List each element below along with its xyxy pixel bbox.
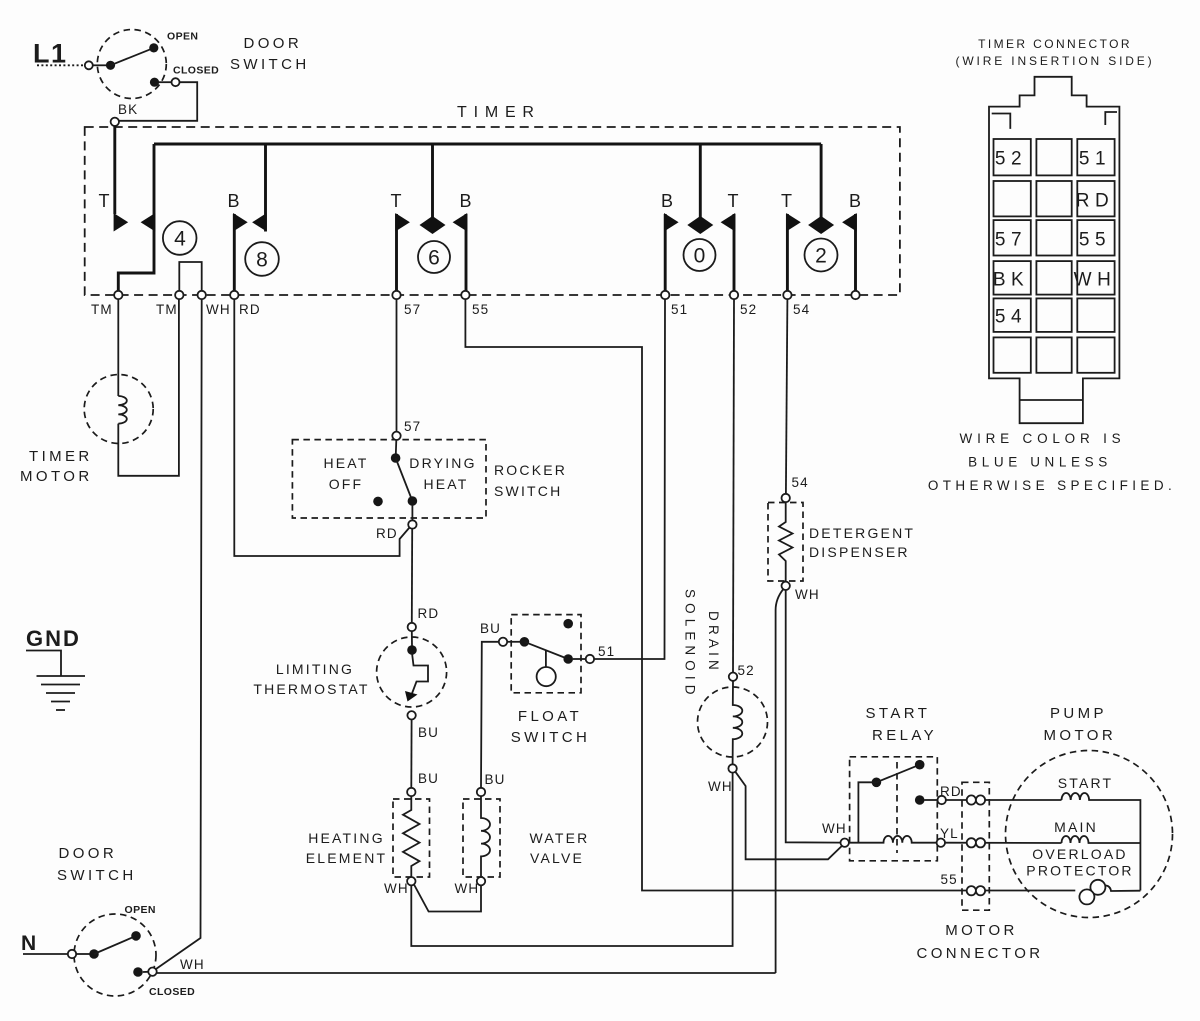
wire 54 from timer to detergent dispenser bbox=[786, 299, 809, 494]
svg-text:PROTECTOR: PROTECTOR bbox=[1026, 863, 1133, 879]
label DRYING HEAT bbox=[409, 455, 476, 492]
label WATER VALVE bbox=[530, 830, 590, 866]
svg-text:WH: WH bbox=[455, 881, 480, 896]
svg-text:WH: WH bbox=[206, 302, 231, 317]
svg-text:MOTOR: MOTOR bbox=[20, 468, 93, 485]
note WIRE COLOR IS BLUE UNLESS OTHERWISE SPECIFIED bbox=[928, 431, 1176, 493]
label BK bbox=[118, 102, 138, 117]
label DOOR SWITCH (top) bbox=[230, 35, 310, 73]
label LIMITING THERMOSTAT bbox=[253, 661, 369, 697]
svg-text:4: 4 bbox=[174, 228, 186, 251]
wire 52 from timer to drain solenoid bbox=[733, 299, 755, 678]
label YL at start relay bbox=[940, 826, 959, 841]
svg-text:HEAT: HEAT bbox=[423, 476, 468, 492]
label RD at rocker output bbox=[376, 526, 398, 541]
label WH at bottom door switch bbox=[180, 957, 205, 972]
connector pin label RD bbox=[1076, 191, 1114, 212]
svg-text:BK: BK bbox=[993, 270, 1029, 291]
wire 55 from timer to motor connector bbox=[465, 299, 1075, 890]
svg-text:6: 6 bbox=[428, 247, 440, 270]
svg-text:CLOSED: CLOSED bbox=[173, 65, 219, 77]
svg-text:52: 52 bbox=[995, 149, 1027, 170]
connector pin label BK bbox=[993, 270, 1029, 291]
svg-text:WH: WH bbox=[1074, 270, 1117, 291]
label WH at drain solenoid bbox=[708, 779, 733, 794]
jumper TM-WH inside timer bbox=[179, 262, 201, 292]
label FLOAT SWITCH bbox=[511, 708, 591, 746]
svg-text:MAIN: MAIN bbox=[1054, 819, 1098, 835]
drain solenoid L3 bbox=[698, 673, 768, 773]
svg-text:TM: TM bbox=[156, 302, 178, 317]
label WH at detergent dispenser bbox=[795, 587, 820, 602]
svg-text:BU: BU bbox=[418, 725, 439, 740]
label CLOSED (top door switch) bbox=[173, 65, 219, 77]
svg-text:ROCKER: ROCKER bbox=[494, 462, 567, 478]
timer cam switch 0 : T line (52) bbox=[721, 213, 736, 292]
svg-text:B: B bbox=[228, 191, 240, 211]
label T (cam 4) bbox=[99, 191, 110, 211]
limiting thermostat TH1 bbox=[377, 623, 447, 720]
timer terminal 52 bbox=[730, 291, 757, 317]
svg-text:WIRE COLOR IS: WIRE COLOR IS bbox=[960, 431, 1126, 446]
svg-text:57: 57 bbox=[995, 230, 1027, 251]
cam number 0 bbox=[684, 239, 716, 271]
connector pin label 54 bbox=[995, 307, 1027, 328]
svg-text:RD: RD bbox=[940, 784, 962, 799]
wire 57 from timer to rocker switch bbox=[397, 299, 422, 434]
wire L1 lead bbox=[37, 64, 85, 66]
svg-text:L1: L1 bbox=[33, 39, 68, 69]
timer terminal 54 bbox=[783, 291, 810, 317]
wire TM1 to timer motor bbox=[117, 299, 119, 396]
label MAIN (pump winding) bbox=[1054, 819, 1098, 835]
label START RELAY bbox=[866, 705, 938, 744]
label OPEN (top door switch) bbox=[167, 31, 198, 43]
svg-text:57: 57 bbox=[404, 302, 421, 317]
svg-text:T: T bbox=[99, 191, 110, 211]
label OVERLOAD PROTECTOR bbox=[1026, 846, 1133, 879]
svg-text:54: 54 bbox=[793, 302, 810, 317]
label B (cam 8) bbox=[228, 191, 240, 211]
timer cam switch 2 : B line bbox=[842, 213, 857, 292]
timer cam switch 4 : moving line from bus to TM bbox=[118, 144, 155, 292]
label WH at heating element bbox=[384, 881, 409, 896]
svg-text:57: 57 bbox=[404, 419, 421, 434]
svg-text:OVERLOAD: OVERLOAD bbox=[1032, 846, 1127, 862]
label B (cam 2) bbox=[849, 191, 861, 211]
svg-text:DRYING: DRYING bbox=[409, 455, 476, 471]
svg-text:BLUE UNLESS: BLUE UNLESS bbox=[968, 455, 1112, 470]
svg-text:VALVE: VALVE bbox=[530, 850, 584, 866]
svg-text:LIMITING: LIMITING bbox=[276, 661, 354, 677]
svg-text:8: 8 bbox=[256, 249, 268, 272]
svg-text:SWITCH: SWITCH bbox=[511, 729, 591, 746]
label MOTOR CONNECTOR bbox=[917, 922, 1044, 962]
label TIMER MOTOR bbox=[20, 448, 93, 485]
wire RD relay to pump motor bbox=[946, 799, 1062, 801]
timer terminal 55 bbox=[461, 291, 489, 317]
svg-text:HEAT: HEAT bbox=[323, 455, 368, 471]
svg-text:T: T bbox=[391, 191, 402, 211]
svg-text:RD: RD bbox=[418, 606, 440, 621]
timer terminal 51 bbox=[661, 291, 688, 317]
svg-text:TM: TM bbox=[91, 302, 113, 317]
svg-text:FLOAT: FLOAT bbox=[518, 708, 582, 725]
svg-text:55: 55 bbox=[472, 302, 489, 317]
timer cam switch 2 : common from bus with diamond bbox=[808, 144, 834, 234]
wire rocker to limiting thermostat bbox=[412, 529, 439, 623]
wire YL relay to pump motor bbox=[945, 842, 1062, 844]
svg-text:SOLENOID: SOLENOID bbox=[683, 589, 698, 700]
label L1 bbox=[33, 39, 68, 69]
svg-text:PUMP: PUMP bbox=[1050, 705, 1107, 722]
svg-text:OTHERWISE SPECIFIED.: OTHERWISE SPECIFIED. bbox=[928, 478, 1176, 493]
svg-text:51: 51 bbox=[1079, 149, 1111, 170]
wire WH from timer down to door switch bbox=[156, 299, 202, 969]
svg-text:52: 52 bbox=[738, 663, 755, 678]
timer cam switch 2 : T line (54) bbox=[786, 213, 801, 292]
timer box (dashed) bbox=[85, 127, 900, 295]
timer cam switch 6 : common from bus with diamond bbox=[420, 144, 446, 234]
label PUMP MOTOR bbox=[1044, 705, 1117, 744]
label 51 at float switch bbox=[598, 644, 615, 659]
svg-text:HEATING: HEATING bbox=[308, 830, 385, 846]
svg-text:BU: BU bbox=[418, 771, 439, 786]
wire float switch BU to water valve bbox=[480, 621, 505, 788]
label ROCKER SWITCH bbox=[494, 462, 567, 499]
label CLOSED (bottom door switch) bbox=[149, 986, 195, 998]
water valve L2 bbox=[463, 788, 500, 886]
connector pin label WH bbox=[1074, 270, 1117, 291]
wire detergent WH to neutral bus bbox=[776, 589, 784, 973]
timer motor M1 bbox=[84, 375, 153, 444]
svg-text:MOTOR: MOTOR bbox=[945, 922, 1018, 939]
label HEATING ELEMENT bbox=[306, 830, 388, 866]
label DETERGENT DISPENSER bbox=[809, 525, 915, 560]
wire door switch to BK terminal bbox=[119, 82, 197, 121]
svg-text:SWITCH: SWITCH bbox=[230, 56, 310, 73]
label 55 at motor connector bbox=[941, 872, 958, 887]
label WH at start relay bbox=[822, 821, 847, 836]
svg-text:RELAY: RELAY bbox=[872, 727, 937, 744]
svg-text:54: 54 bbox=[995, 307, 1027, 328]
neutral wire N across bottom bbox=[157, 972, 776, 974]
svg-text:WH: WH bbox=[180, 957, 205, 972]
wire heating element WH to drain solenoid WH bbox=[411, 773, 732, 946]
svg-text:BK: BK bbox=[118, 102, 138, 117]
svg-text:DOOR: DOOR bbox=[59, 845, 118, 862]
timer terminal 57 bbox=[392, 291, 421, 317]
timer terminal RD bbox=[230, 291, 261, 317]
svg-text:51: 51 bbox=[598, 644, 615, 659]
timer cam switch 0 : B line (51) bbox=[664, 213, 679, 292]
connector pin label 52 bbox=[995, 149, 1027, 170]
svg-text:CLOSED: CLOSED bbox=[149, 986, 195, 998]
cam number 2 bbox=[805, 239, 838, 272]
wire RD from timer to rocker switch bbox=[234, 299, 409, 556]
ground symbol GND bbox=[26, 626, 85, 710]
wire N lead bbox=[23, 953, 68, 955]
connector pin label 55 bbox=[1079, 230, 1111, 251]
label TIMER bbox=[457, 104, 541, 121]
svg-text:DRAIN: DRAIN bbox=[706, 611, 721, 674]
label HEAT OFF bbox=[323, 455, 368, 492]
svg-text:0: 0 bbox=[694, 245, 706, 268]
svg-text:B: B bbox=[849, 191, 861, 211]
svg-text:N: N bbox=[21, 932, 36, 955]
cam number 6 bbox=[418, 241, 450, 273]
timer terminal TM (2) bbox=[156, 291, 184, 317]
label B (cam 6) bbox=[460, 191, 472, 211]
svg-text:YL: YL bbox=[940, 826, 959, 841]
motor connector bbox=[962, 782, 989, 910]
cam number 8 bbox=[245, 242, 279, 276]
wire drain solenoid WH to start relay WH bbox=[735, 772, 841, 860]
label DOOR SWITCH (bottom) bbox=[57, 845, 137, 884]
timer bus wire bbox=[154, 143, 821, 146]
svg-text:55: 55 bbox=[941, 872, 958, 887]
timer connector (top right) bbox=[989, 77, 1119, 423]
svg-text:START: START bbox=[1058, 775, 1114, 791]
svg-text:52: 52 bbox=[740, 302, 757, 317]
float switch S3 bbox=[499, 615, 594, 693]
svg-text:WH: WH bbox=[384, 881, 409, 896]
svg-text:WATER: WATER bbox=[530, 830, 590, 846]
label WH at water valve bbox=[455, 881, 480, 896]
wire detergent WH to start relay WH bbox=[786, 590, 841, 843]
heating element R1 bbox=[393, 788, 430, 886]
timer cam switch 4 : T line from BK bbox=[114, 126, 129, 232]
timer cam switch 8 : B line to RD terminal bbox=[233, 213, 248, 292]
pump motor M2 bbox=[1006, 751, 1173, 918]
svg-text:WH: WH bbox=[795, 587, 820, 602]
timer terminal WH bbox=[198, 291, 231, 317]
svg-text:ELEMENT: ELEMENT bbox=[306, 850, 388, 866]
svg-text:BU: BU bbox=[480, 621, 501, 636]
svg-text:55: 55 bbox=[1079, 230, 1111, 251]
svg-text:OPEN: OPEN bbox=[167, 31, 198, 43]
door switch DS1 (top) bbox=[85, 30, 180, 99]
svg-text:DOOR: DOOR bbox=[244, 35, 303, 52]
label N bbox=[21, 932, 36, 955]
svg-text:WH: WH bbox=[822, 821, 847, 836]
svg-text:T: T bbox=[728, 191, 739, 211]
connector pin label 51 bbox=[1079, 149, 1111, 170]
cam number 4 bbox=[163, 221, 197, 255]
label DRAIN SOLENOID (vertical) bbox=[683, 589, 722, 700]
connector pin label 57 bbox=[995, 230, 1027, 251]
detergent dispenser R2 bbox=[768, 494, 803, 590]
start relay K1 bbox=[841, 757, 946, 861]
label RD at start relay bbox=[940, 784, 962, 799]
svg-text:CONNECTOR: CONNECTOR bbox=[917, 945, 1044, 962]
label B (cam 0) bbox=[661, 191, 673, 211]
wire 51 from timer to float switch bbox=[594, 299, 665, 659]
label OPEN (bottom door switch) bbox=[125, 904, 156, 916]
node BK terminal bbox=[111, 118, 119, 126]
svg-text:RD: RD bbox=[376, 526, 398, 541]
svg-text:THERMOSTAT: THERMOSTAT bbox=[253, 681, 369, 697]
rocker switch S2 bbox=[292, 432, 486, 529]
svg-text:DISPENSER: DISPENSER bbox=[809, 544, 910, 560]
timer connector grid cells bbox=[994, 139, 1115, 373]
timer cam switch 8 : line from bus bbox=[252, 144, 267, 232]
svg-text:GND: GND bbox=[26, 626, 81, 651]
timer terminal TM (1) bbox=[91, 291, 123, 317]
svg-text:54: 54 bbox=[792, 475, 809, 490]
svg-text:B: B bbox=[460, 191, 472, 211]
svg-text:BU: BU bbox=[485, 772, 506, 787]
svg-text:START: START bbox=[866, 705, 931, 722]
svg-text:WH: WH bbox=[708, 779, 733, 794]
label T (cam 0) bbox=[728, 191, 739, 211]
svg-text:OPEN: OPEN bbox=[125, 904, 156, 916]
svg-text:OFF: OFF bbox=[329, 476, 364, 492]
label T (cam 6) bbox=[391, 191, 402, 211]
svg-text:51: 51 bbox=[671, 302, 688, 317]
label TIMER CONNECTOR (WIRE INSERTION SIDE) bbox=[956, 37, 1155, 68]
svg-text:SWITCH: SWITCH bbox=[57, 867, 137, 884]
svg-text:DETERGENT: DETERGENT bbox=[809, 525, 915, 541]
svg-text:TIMER: TIMER bbox=[457, 104, 541, 121]
svg-text:(WIRE INSERTION SIDE): (WIRE INSERTION SIDE) bbox=[956, 54, 1155, 68]
label START (pump winding) bbox=[1058, 775, 1114, 791]
timer cam switch 0 : common from bus with diamond bbox=[687, 144, 713, 234]
svg-text:SWITCH: SWITCH bbox=[494, 483, 562, 499]
svg-text:RD: RD bbox=[239, 302, 261, 317]
svg-text:T: T bbox=[781, 191, 792, 211]
timer terminal unlabeled bbox=[851, 291, 859, 299]
door switch DS2 (bottom) bbox=[68, 914, 157, 996]
wire thermostat to heating element bbox=[411, 720, 439, 789]
svg-text:MOTOR: MOTOR bbox=[1044, 727, 1117, 744]
svg-text:B: B bbox=[661, 191, 673, 211]
wire timer motor return to TM2 bbox=[118, 299, 179, 476]
svg-text:2: 2 bbox=[815, 245, 827, 268]
timer cam switch 6 : T line (57) bbox=[395, 213, 410, 292]
svg-text:RD: RD bbox=[1076, 191, 1114, 212]
svg-text:TIMER: TIMER bbox=[29, 448, 93, 465]
timer cam switch 6 : B line (55) bbox=[453, 213, 468, 292]
svg-text:TIMER CONNECTOR: TIMER CONNECTOR bbox=[978, 37, 1132, 51]
wire heating element to water valve (WH) bbox=[414, 885, 481, 912]
label T (cam 2) bbox=[781, 191, 792, 211]
